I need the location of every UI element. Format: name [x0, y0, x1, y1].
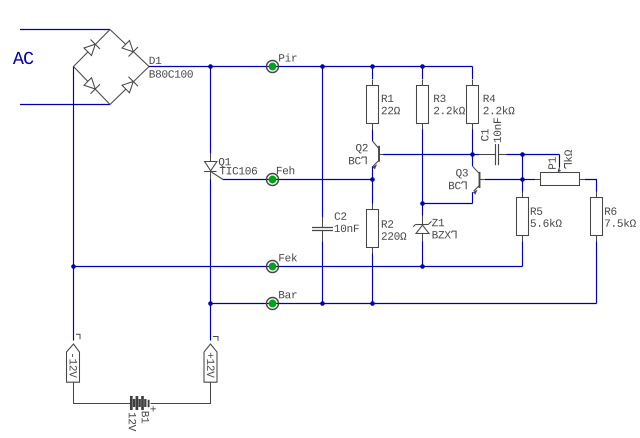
label 2.2k ohm of R4: [484, 106, 515, 114]
wire Q1 anode: [210, 67, 212, 154]
label BZX7 of Z1: [433, 231, 457, 238]
node Feh connector: [266, 174, 279, 186]
label 10nF of C2: [335, 225, 359, 233]
label R4: [484, 95, 496, 102]
wire net Feh: [223, 179, 373, 181]
wire R1 top: [372, 67, 374, 80]
label R5: [531, 208, 542, 215]
label B1 (rotated): [142, 412, 149, 424]
wire C1 right to P1 wiper corner: [507, 154, 560, 156]
wire net Fek rail: [74, 266, 523, 268]
wire Z1 bottom to Fek rail: [422, 242, 424, 267]
junction Fek / Z1: [420, 264, 425, 269]
resistor R4: [467, 80, 479, 130]
label Fek: [279, 253, 297, 261]
label Feh: [277, 166, 294, 174]
wire net Bar rail: [211, 303, 597, 305]
label TIC106: [220, 167, 257, 175]
junction Bar / C2 branch: [320, 301, 325, 306]
node Fek connector: [266, 261, 279, 273]
wire R4 top: [472, 67, 474, 80]
label 10nF of C1 (rotated): [493, 118, 501, 142]
label 22 ohm of R1: [382, 107, 400, 114]
label P1 (rotated): [548, 157, 555, 169]
wire R5 bottom to Fek rail: [522, 242, 524, 267]
battery B1: [131, 396, 148, 410]
wire top rail: [149, 66, 473, 68]
junction Q3 base / P1 left / R5: [520, 177, 525, 182]
wire Q2 emitter down: [372, 166, 374, 203]
label + of B1: [150, 406, 155, 411]
label -12V (rotated): [70, 354, 77, 378]
supply tag -12V: [67, 344, 80, 382]
node Pir connector: [266, 61, 279, 73]
junction C1 / P1 wiper rail / Q3 base column: [520, 152, 525, 157]
transistor Q3: [473, 166, 486, 194]
wire junction to C1 left: [473, 154, 480, 156]
junction top rail / C2 branch: [320, 64, 325, 69]
potentiometer P1: [535, 167, 585, 186]
label D1: [150, 57, 162, 64]
label 220 ohm of R2: [382, 232, 407, 240]
wire R3 top: [422, 67, 424, 80]
junction Fek / left column: [71, 264, 76, 269]
label Pir: [279, 53, 296, 61]
junction top rail / R1 branch: [370, 64, 375, 69]
junction top rail / Q1 anode: [208, 64, 213, 69]
label BC7 of Q3: [449, 182, 466, 190]
wire C2 branch lower: [322, 241, 324, 303]
junction R3 / Z1 / Q3 emitter: [420, 201, 425, 206]
label C2: [335, 212, 347, 220]
label Z1: [432, 219, 444, 226]
wire P1 right down to R6: [585, 180, 597, 192]
resistor R1: [367, 80, 379, 130]
resistor R6: [591, 192, 603, 242]
wire C1 junction down to base junction: [522, 155, 524, 180]
label C1 (rotated): [481, 129, 489, 141]
label R3: [434, 95, 445, 103]
wire C2 branch upper: [322, 67, 324, 218]
label R2: [382, 220, 393, 227]
supply tag +12V: [204, 344, 217, 382]
junction Bar / Q1 column: [208, 301, 213, 306]
label 2.2k ohm of R3: [434, 106, 465, 114]
label AC: [13, 52, 33, 64]
label R1: [382, 95, 394, 102]
wire R4 bottom to Q3 collector: [472, 130, 474, 167]
wire P1 wiper vertical: [559, 155, 561, 168]
wire Q3 emitter down: [472, 192, 474, 203]
wire R1 bottom to Q2 collector: [372, 130, 374, 142]
label Q2: [356, 144, 368, 154]
wire base junction down to R5: [522, 180, 524, 192]
label BC7 of Q2: [349, 157, 366, 165]
junction R4 / Q2 base / C1 / Q3 collector: [470, 152, 475, 157]
label ?k ohm of P1 (rotated): [564, 150, 572, 169]
resistor R2: [367, 204, 379, 254]
wire Q3 emitter to Z1 top: [423, 203, 473, 205]
capacitor C2: [312, 217, 333, 241]
thyristor Q1: [204, 153, 223, 180]
wire R2 bottom: [372, 254, 374, 304]
junction top rail / R3 branch: [420, 64, 425, 69]
wire Q1 cathode down to +12V tag: [210, 180, 212, 341]
wire Q2 base to R4 junction: [383, 154, 473, 156]
label ? of -12V tag: [76, 334, 80, 339]
wire +12V tag to battery B1: [151, 382, 211, 403]
label Q1: [219, 158, 231, 168]
label Q3: [456, 169, 468, 179]
label Bar: [279, 291, 296, 298]
wire -12V tag to battery B1: [74, 382, 131, 403]
resistor R5: [517, 192, 529, 242]
wire R3 bottom to Z1: [422, 130, 424, 216]
label +12V (rotated): [207, 353, 214, 378]
wire Q3 base: [485, 179, 523, 181]
node Bar connector: [266, 298, 279, 310]
label B80C100: [150, 70, 193, 78]
junction Feh / Q2 emitter / R2: [370, 177, 375, 182]
label 12V of B1 (rotated): [129, 413, 136, 431]
wire bridge minus column: [73, 67, 75, 341]
zener diode Z1: [413, 216, 431, 242]
label R6: [605, 207, 616, 215]
label 7.5k ohm of R6: [605, 219, 636, 227]
junction Bar / R2 branch: [370, 301, 375, 306]
wire base junction to P1 left: [523, 179, 536, 181]
wire R6 bottom to Bar rail: [596, 242, 598, 304]
bridge rectifier D1: [74, 30, 150, 105]
label ? of +12V tag: [213, 337, 218, 341]
wire AC input bottom: [20, 104, 110, 106]
capacitor C1: [479, 144, 507, 165]
wire AC input top: [20, 29, 110, 31]
transistor Q2: [372, 141, 383, 169]
resistor R3: [417, 80, 429, 130]
label 5.6k ohm of R5: [531, 219, 562, 227]
